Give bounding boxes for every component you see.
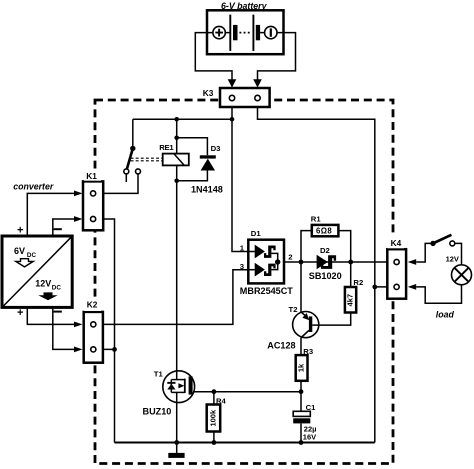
wire: battery internal right (260, 32, 283, 34)
svg-text:+: + (17, 225, 23, 237)
schottky diode D2 SB1020 (317, 255, 328, 269)
D1 internal cathode tie (271, 253, 277, 269)
wire: converter 12V + out to K2 pin1 (arrow) (27, 307, 74, 324)
mosfet T1 BUZ10 (163, 371, 195, 403)
svg-text:R3: R3 (303, 347, 313, 356)
wire: K2 pin2 to ground line (93, 348, 114, 350)
svg-text:T1: T1 (154, 369, 164, 378)
svg-text:D2: D2 (320, 246, 330, 255)
transistor T2 AC128 (293, 312, 319, 338)
D1 upper diode (255, 245, 265, 259)
capacitor C1 22u 16V (293, 411, 310, 416)
svg-text:K2: K2 (87, 300, 98, 310)
battery box (207, 10, 284, 54)
wire: K1 pin2 to ground line (93, 219, 114, 443)
T1 source lead through circle to ground rail (176, 392, 178, 442)
T1 gate bar (189, 376, 193, 394)
lamp 12V (452, 265, 472, 285)
resistor R3 1k (296, 355, 308, 381)
battery cell 1 short electrode (233, 25, 238, 40)
wire: left +6V rail (133, 118, 232, 120)
switch contact circles (124, 169, 129, 174)
svg-text:1: 1 (240, 243, 245, 252)
T2 base bar (309, 316, 312, 332)
T1 substrate arrow (178, 383, 184, 388)
svg-text:3: 3 (240, 262, 244, 271)
junction dot: left rail / coil top (174, 117, 179, 122)
svg-text:MBR2545CT: MBR2545CT (240, 286, 294, 296)
connector K1 (83, 181, 103, 230)
svg-text:+: + (17, 307, 23, 319)
svg-text:16V: 16V (303, 432, 316, 441)
svg-text:2: 2 (288, 252, 292, 261)
svg-text:12V: 12V (35, 278, 51, 288)
svg-text:RE1: RE1 (159, 143, 174, 152)
wire: converter - input to K1 pin2 (arrow) (53, 219, 75, 236)
T1 bottom stub (171, 391, 185, 393)
wire: battery + terminal to K3 pin 1 (left drop) (195, 33, 232, 80)
wire: gate line from T1 to R3 bottom node (193, 391, 301, 393)
junction dot: gate line / R3 bottom / C1 (299, 389, 304, 394)
load switch pivot dot (430, 241, 435, 246)
svg-text:1N4148: 1N4148 (191, 184, 223, 194)
load switch blade (433, 235, 451, 244)
wire: T2 emitter from node 2 (300, 262, 302, 312)
svg-text:AC128: AC128 (267, 340, 295, 350)
wire: R2 top to T2 base (313, 262, 351, 325)
svg-text:K3: K3 (203, 88, 214, 98)
D1 lower diode (255, 263, 265, 277)
ground symbol (176, 443, 178, 453)
junction dot: node 2 (R1 left / T2 emitter) (299, 260, 304, 265)
converter box (2, 236, 72, 307)
wire: converter + input from converter box to K1 pin1 (arrow) (27, 193, 74, 236)
battery cell 2 short electrode (256, 25, 260, 40)
wire: load switch to K4 pin1 (416, 243, 433, 262)
junction dot: D2 cathode / R1 right / R2 top (348, 260, 353, 265)
svg-text:DC: DC (27, 252, 37, 259)
svg-text:D1: D1 (251, 229, 262, 238)
svg-text:12V: 12V (446, 254, 459, 263)
svg-text:DC: DC (52, 285, 62, 292)
wire: battery - terminal to K3 pin 2 (right drop) (258, 33, 296, 80)
junction dot: ground rail / R4 (212, 440, 217, 445)
svg-text:R2: R2 (353, 278, 363, 287)
svg-text:D3: D3 (211, 144, 221, 153)
battery + terminal circle (213, 26, 225, 38)
connector K3 (220, 88, 270, 107)
wire: R4 branch (213, 392, 215, 443)
T1 top stub (171, 379, 185, 381)
junction dot: left rail / K3 pin1 line (230, 117, 235, 122)
wire: K3 pin1 down to +6V node and D1 pin 1 (232, 98, 255, 252)
junction dot: ground rail / T1 source (174, 440, 179, 445)
resistor R4 100k (207, 405, 221, 432)
wire: unused switch contact stub (125, 174, 127, 182)
junction dot: ground line / K2 pin2 (112, 347, 117, 352)
wire: R1 parallel branch over D2 (301, 231, 351, 262)
wire: battery internal left (207, 32, 230, 34)
svg-text:4k7: 4k7 (346, 294, 355, 307)
load circuit: arrow into K4 pin1 (408, 259, 417, 265)
D1 pin1 stub inside (248, 251, 254, 253)
junction dot: ground line / K4 pin2 (372, 285, 377, 290)
junction dot: coil line / D3 bottom (174, 179, 179, 184)
battery - terminal circle (265, 26, 277, 38)
junction dot: coil line / D3 top (174, 136, 179, 141)
svg-text:C1: C1 (306, 403, 317, 412)
battery cell 1 long electrode (229, 15, 231, 51)
arrow into K4 pin2 (408, 284, 417, 290)
wire: K2 pin1 to D1 pin 3 (93, 270, 254, 325)
T1 body diode triangle (167, 384, 175, 390)
svg-text:R4: R4 (216, 396, 227, 405)
svg-text:converter: converter (13, 181, 54, 191)
battery cell 2 long electrode (252, 15, 254, 51)
wire: relay coil line down to T1 drain (176, 119, 178, 371)
dashed enclosure border (95, 100, 393, 464)
resistor R1 6Ohm8 (312, 225, 339, 236)
load switch contact (450, 241, 455, 246)
svg-text:T2: T2 (289, 305, 298, 314)
relay contact switch blade (127, 148, 133, 168)
svg-text:100k: 100k (208, 409, 217, 427)
svg-text:SB1020: SB1020 (309, 271, 342, 281)
battery middle dots (239, 32, 251, 34)
ground rail (115, 442, 375, 444)
D1 internal node dot (275, 259, 280, 264)
T1 drain lead inside (176, 371, 178, 380)
T1 channel bar (184, 379, 186, 393)
arrow into K3 pin 1 (228, 79, 237, 87)
T2 base lead (312, 324, 319, 326)
wire: converter 12V - out to K2 pin2 (arrow) (53, 307, 75, 349)
wire: K4 pin2 to ground line (375, 286, 397, 288)
wire: rail drop to switch pivot (132, 119, 134, 148)
wire: D3 bottom branch (177, 171, 208, 181)
svg-text:6Ω8: 6Ω8 (316, 226, 332, 235)
T1 body-diode branch (170, 380, 172, 393)
wire: lamp bottom to K4 pin2 (416, 285, 461, 304)
svg-text:R1: R1 (311, 215, 322, 224)
T2 emitter diagonal with arrow (301, 312, 305, 316)
relay linkage double dashed line (131, 158, 163, 161)
connector K2 (84, 312, 103, 363)
svg-text:1k: 1k (297, 363, 306, 372)
wire: T2 collector to R3 and node at R3 bottom (300, 338, 302, 392)
connector K4 (387, 249, 406, 299)
D1 pin3 stub inside (248, 269, 254, 271)
hollow arrow 6V down (16, 259, 33, 267)
solid arrow 12V down (38, 292, 57, 300)
T2 collector diagonal (301, 330, 309, 337)
svg-text:load: load (436, 310, 455, 320)
wire: D3 top branch (177, 138, 208, 156)
wire: switch contact to lamp top (455, 243, 462, 265)
T1 body diode bar (167, 382, 175, 384)
wire: C1 leads (300, 392, 302, 443)
wire: D1 pin2 node to K4 pin 1 through D2 (278, 261, 397, 263)
wire: switch contact to K1 pin 1 (93, 174, 138, 193)
svg-text:6V: 6V (14, 246, 25, 256)
relay coil RE1 (163, 154, 189, 166)
junction dot: gate line / R4 top (212, 389, 217, 394)
svg-text:K1: K1 (86, 171, 97, 181)
resistor R2 4k7 (345, 287, 356, 313)
wire: K3 pin2 down, right rail, ground drop to rail (258, 98, 375, 443)
junction dot: ground rail / C1 (299, 440, 304, 445)
arrow into K3 pin 2 (253, 79, 262, 87)
dual schottky D1 MBR2545CT (248, 240, 284, 284)
switch pivot dot (130, 146, 135, 151)
svg-text:BUZ10: BUZ10 (143, 406, 172, 416)
diode D3 1N4148 (200, 155, 216, 158)
svg-text:K4: K4 (391, 238, 402, 248)
